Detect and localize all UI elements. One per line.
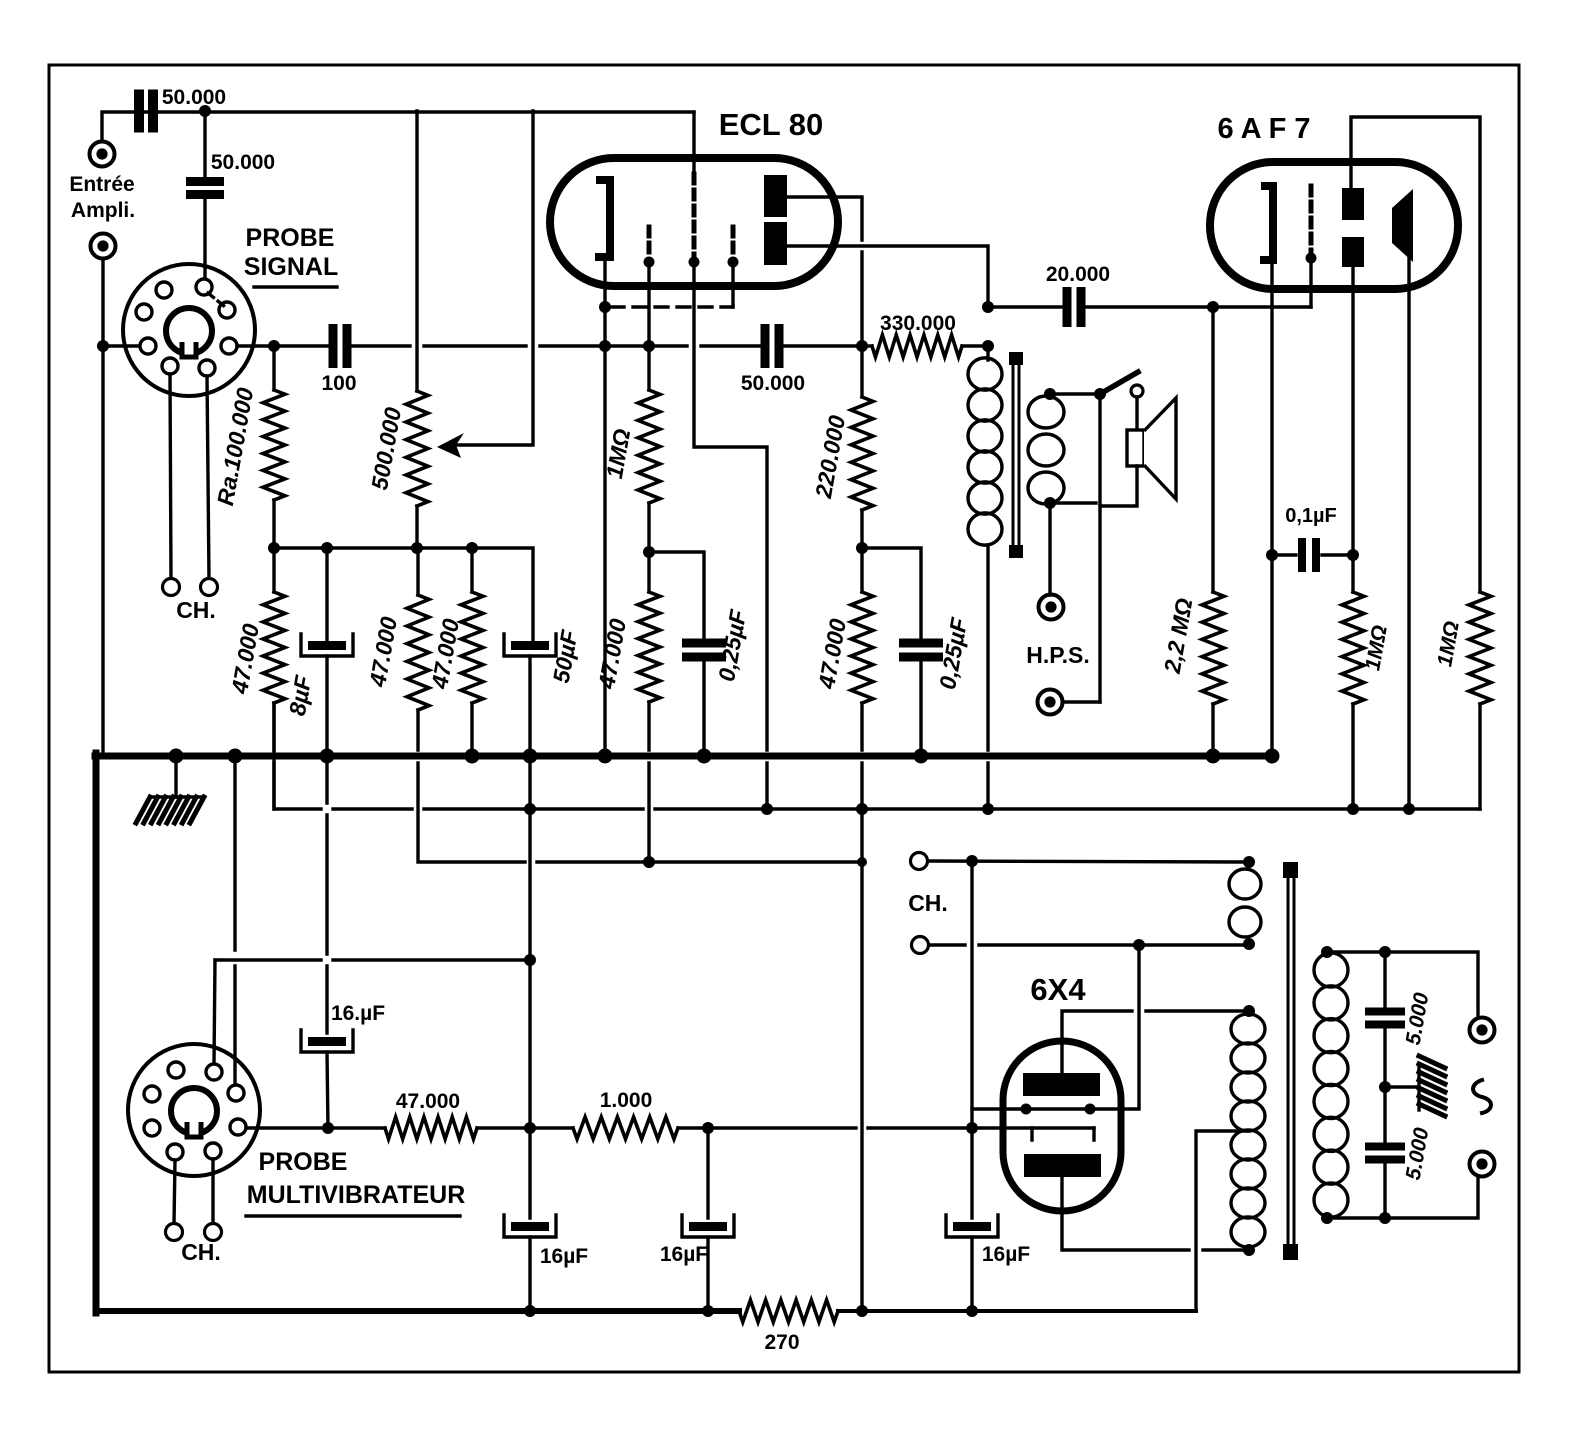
label PROBE MULTIVIBRATEUR bbox=[246, 1148, 465, 1216]
wire input jack to top rail bbox=[102, 112, 694, 141]
capacitor C4 50.000 (coupling) bbox=[741, 324, 805, 395]
label AC symbol bbox=[1473, 1080, 1491, 1113]
electrode V3 cathode bbox=[1032, 1128, 1094, 1140]
ground output symbol bbox=[1419, 1056, 1445, 1116]
label CH top bbox=[176, 597, 216, 623]
svg-text:CH.: CH. bbox=[908, 890, 948, 916]
wire V1 triode plate down bbox=[603, 257, 606, 754]
socket1 center keyway bbox=[166, 308, 212, 357]
electrode V2 plate bracket bbox=[1260, 186, 1273, 260]
svg-text:6X4: 6X4 bbox=[1030, 972, 1086, 1007]
resistor R10 2.2M ohm bbox=[1159, 307, 1224, 758]
electrode V1 pentode plate bbox=[764, 175, 787, 217]
svg-text:16µF: 16µF bbox=[982, 1243, 1030, 1266]
svg-text:H.P.S.: H.P.S. bbox=[1026, 642, 1090, 668]
node C7 top junction bbox=[321, 542, 333, 554]
wire switch common down to HPS bbox=[1098, 394, 1101, 702]
electrode V2 anode bar upper bbox=[1342, 188, 1364, 220]
capacitor C11 16uF bbox=[301, 756, 385, 1129]
node R8 bottom junction bbox=[856, 542, 868, 554]
wire to socket left pin bbox=[103, 344, 141, 347]
node R4 top junction bbox=[466, 542, 478, 554]
node 330k right junction bbox=[982, 340, 994, 352]
node pot-bottom junction bbox=[411, 542, 423, 554]
wire to output ground bbox=[1385, 1085, 1419, 1088]
pin socket2 p2 bbox=[206, 1064, 222, 1080]
wire mid link y862 bbox=[418, 710, 862, 862]
electrode V1 triode plate bracket bbox=[595, 180, 610, 257]
node V1 plate to signal wire bbox=[599, 340, 611, 352]
node heavy rail junction x605 bbox=[598, 749, 613, 764]
node heavy rail junction x530 bbox=[523, 749, 538, 764]
speaker LS driver bbox=[1127, 430, 1144, 466]
node C5 line to 2.2M bbox=[1207, 301, 1219, 313]
svg-text:50.000: 50.000 bbox=[741, 372, 805, 395]
capacitor C5 20.000 bbox=[1046, 263, 1110, 327]
terminal CH left bbox=[163, 579, 180, 596]
node bottom rail junction x862 bbox=[856, 1305, 868, 1317]
capacitor C12 16uF bbox=[504, 1215, 588, 1311]
wire dashed socket1 link bbox=[208, 293, 224, 306]
node T1 secondary top bbox=[1044, 388, 1056, 400]
wire V2 target down bbox=[1407, 258, 1410, 809]
pin socket2 p1 bbox=[168, 1062, 184, 1078]
node heavy rail junction x1213 bbox=[1206, 749, 1221, 764]
transformer T2 secondary winding bbox=[1314, 953, 1348, 1217]
wire multivibrator output line bbox=[246, 1126, 1094, 1129]
wire V1 grid2 elbow down-right bbox=[694, 262, 767, 809]
wire pot feed from top rail bbox=[415, 111, 418, 391]
electrode V3 plate 1 bbox=[1023, 1073, 1100, 1096]
wire filament right link bbox=[1090, 945, 1139, 1109]
wire main signal line (socket to 330k node) bbox=[237, 344, 862, 347]
wire V2 upper bar over the top bbox=[1351, 117, 1480, 592]
node R5 bottom junction bbox=[643, 546, 655, 558]
electrode V1 grid2 dashed (from top rail) bbox=[689, 112, 700, 268]
switch SW contact bbox=[1131, 385, 1143, 397]
capacitor C1 50.000 (input coupling) bbox=[134, 86, 226, 133]
capacitor C16 5.000 bbox=[1365, 1126, 1434, 1218]
svg-text:Entrée: Entrée bbox=[69, 173, 134, 196]
capacitor C7 8uF bbox=[284, 548, 353, 756]
node C11 bottom junction bbox=[322, 1122, 334, 1134]
node V1 plate to dashed link bbox=[599, 301, 611, 313]
resistor R11 1M ohm bbox=[1342, 592, 1392, 809]
jack J3 H.P.S. top bbox=[1039, 595, 1064, 620]
resistor R4 47.000 bbox=[426, 548, 483, 756]
wire heavy chassis rail bbox=[95, 753, 1275, 760]
ground chassis symbol bbox=[136, 756, 204, 823]
wire heavy left bus bbox=[93, 753, 100, 1313]
resistor R16 47.000 (pot column) bbox=[364, 548, 429, 710]
transformer T2 core bbox=[1283, 862, 1298, 1260]
socket2 center keyway bbox=[171, 1088, 217, 1137]
node T2 secondary top bbox=[1321, 946, 1333, 958]
wire x972 column bbox=[970, 861, 973, 1218]
svg-text:100: 100 bbox=[321, 372, 356, 395]
resistor R6 47.000 bbox=[593, 552, 660, 862]
wire jack J2 down the left side bbox=[101, 259, 104, 754]
wire switch to speaker bbox=[1135, 397, 1138, 430]
resistor R14 1.000 bbox=[573, 1089, 678, 1139]
wire T1 sec top to switch bbox=[1050, 392, 1100, 395]
electrode V1 grid3 dashed bbox=[728, 227, 739, 268]
wire filament left link bbox=[972, 1107, 1026, 1110]
wire screen to 20.000 and 6AF7 grid bbox=[988, 305, 1311, 308]
wire V2 plate down bbox=[1270, 260, 1273, 758]
label CH bottom bbox=[181, 1239, 221, 1265]
svg-text:CH.: CH. bbox=[176, 597, 216, 623]
wire pot bottom bbox=[415, 506, 418, 548]
wire long vertical x862 down bbox=[860, 809, 863, 1311]
switch SW pivot bbox=[1094, 388, 1106, 400]
switch SW lever bbox=[1100, 372, 1138, 394]
terminal CH2 left bbox=[166, 1224, 183, 1241]
wire bias bus y548 bbox=[274, 548, 533, 641]
wire V1 grid3 to plate (dashed link) bbox=[611, 262, 733, 307]
node heavy rail junction x472 bbox=[465, 749, 480, 764]
wire V1 screen out bbox=[787, 246, 988, 307]
pin socket1 p5 bbox=[219, 302, 235, 318]
capacitor C15 5.000 bbox=[1365, 952, 1434, 1143]
electrode V1 pentode cathode bbox=[764, 222, 787, 265]
capacitor C9 0.25uF bbox=[649, 552, 751, 756]
jack J1 Entree Ampli top bbox=[90, 142, 115, 167]
wire T2 center tap to ground rail bbox=[1196, 1131, 1249, 1311]
node bottom rail junction x972 bbox=[966, 1305, 978, 1317]
svg-text:50.000: 50.000 bbox=[162, 86, 226, 109]
wire socket2 heater right down bbox=[211, 1159, 214, 1224]
pin socket1 p2 bbox=[156, 282, 172, 298]
resistor R5 1M ohm bbox=[601, 346, 660, 552]
label PROBE SIGNAL bbox=[244, 224, 338, 287]
resistor R13 47.000 bbox=[385, 1090, 477, 1139]
label 6AF7 bbox=[1218, 113, 1311, 145]
svg-text:CH.: CH. bbox=[181, 1239, 221, 1265]
node T2 HV bottom bbox=[1243, 1244, 1255, 1256]
terminal CH4 mid bbox=[912, 937, 929, 954]
svg-text:16µF: 16µF bbox=[540, 1245, 588, 1268]
transformer T1 secondary winding bbox=[1028, 396, 1064, 504]
capacitor C2 50.000 (to probe socket) bbox=[186, 151, 275, 199]
terminal CH3 mid bbox=[911, 853, 928, 870]
node T2 heater top bbox=[1243, 856, 1255, 868]
wire socket1 heater pin right down bbox=[207, 376, 209, 579]
node heavy rail junction x1272 bbox=[1265, 749, 1280, 764]
node R1 bottom junction bbox=[268, 542, 280, 554]
node 330k left junction bbox=[856, 340, 868, 352]
node rail2 junction x1353 bbox=[1347, 803, 1359, 815]
node C14 top junction bbox=[966, 1122, 978, 1134]
resistor R15 270 bbox=[739, 1300, 838, 1354]
node heavy rail junction x921 bbox=[914, 749, 929, 764]
pin socket2 p6 bbox=[230, 1119, 246, 1135]
wire T1 sec bottom to HPS jack bbox=[1048, 503, 1051, 595]
wire T1 sec bottom stub bbox=[1050, 501, 1096, 504]
resistor R7 330.000 bbox=[862, 312, 988, 357]
resistor R3 47.000 bbox=[226, 548, 285, 809]
tube V3 6X4 envelope bbox=[1003, 1041, 1121, 1211]
electrode V2 anode bar lower bbox=[1342, 237, 1364, 267]
node rail2 junction x767 bbox=[761, 803, 773, 815]
node C16 bottom junction bbox=[1379, 1212, 1391, 1224]
node heavy rail junction x704 bbox=[697, 749, 712, 764]
wire T2 sec bottom line bbox=[1327, 1178, 1478, 1218]
node T2 secondary bottom bbox=[1321, 1212, 1333, 1224]
wire x530 long vertical bbox=[528, 756, 531, 1218]
node C6 right junction bbox=[1347, 549, 1359, 561]
resistor R2 500.000 potentiometer bbox=[366, 391, 428, 506]
wire CH3 line bbox=[928, 861, 1243, 862]
svg-text:20.000: 20.000 bbox=[1046, 263, 1110, 286]
svg-text:330.000: 330.000 bbox=[880, 312, 956, 335]
node T2 HV top bbox=[1243, 1005, 1255, 1017]
capacitor C10 0.25uF bbox=[862, 548, 972, 756]
node rail2 junction x1409 bbox=[1403, 803, 1415, 815]
capacitor C14 16uF bbox=[946, 1215, 1030, 1311]
tube socket PROBE MULTIVIBRATEUR outline bbox=[128, 1044, 260, 1176]
jack J2 Entree Ampli bottom bbox=[91, 234, 116, 259]
wire speaker bottom bbox=[1100, 466, 1137, 506]
resistor R9 47.000 bbox=[813, 548, 873, 810]
wire y962 link bbox=[215, 958, 530, 961]
tube V2 6AF7 envelope bbox=[1210, 162, 1458, 289]
jack J6 output bottom bbox=[1470, 1152, 1495, 1177]
node rail2 junction x862 bbox=[856, 803, 868, 815]
label H.P.S. bbox=[1026, 642, 1090, 668]
node CH4 junction bbox=[1133, 939, 1145, 951]
svg-text:16µF: 16µF bbox=[660, 1243, 708, 1266]
wire V1 grid1 down bbox=[647, 262, 650, 346]
wire V1 pentode plate out bbox=[787, 197, 862, 346]
pin socket1 p7 bbox=[162, 358, 178, 374]
wire HPS bottom jack link bbox=[1063, 700, 1100, 703]
node rail2 junction x988 bbox=[982, 803, 994, 815]
transformer T1 core bbox=[1009, 352, 1023, 558]
node T1 secondary bottom bbox=[1044, 497, 1056, 509]
capacitor C3 100 bbox=[321, 324, 356, 395]
wire V2 lower bar down bbox=[1351, 267, 1354, 592]
node junction left wire to socket bbox=[97, 340, 109, 352]
wire socket2 feed from rail bbox=[233, 756, 236, 1086]
wire T2 sec top line bbox=[1327, 952, 1478, 1016]
svg-text:ECL 80: ECL 80 bbox=[719, 107, 824, 142]
svg-text:SIGNAL: SIGNAL bbox=[244, 253, 338, 281]
jack J4 H.P.S. bottom bbox=[1038, 690, 1063, 715]
resistor R12 1M ohm bbox=[1433, 592, 1491, 809]
electrode V1 grid1 dashed bbox=[644, 227, 655, 268]
pin socket2 p3 bbox=[144, 1086, 160, 1102]
pin socket1 p1 bbox=[196, 279, 212, 295]
wire pot wiper from top rail bbox=[447, 111, 533, 445]
svg-text:270: 270 bbox=[764, 1331, 799, 1354]
wire y962 to socket2 pin bbox=[214, 960, 215, 1064]
svg-text:PROBE: PROBE bbox=[246, 224, 335, 252]
resistor R1 Ra.100.000 bbox=[212, 346, 285, 548]
capacitor C6 0.1uF bbox=[1272, 505, 1353, 572]
pin socket2 p5 bbox=[144, 1120, 160, 1136]
wire V2 grid elbow to C5 line bbox=[1309, 258, 1312, 307]
wire V3 plate2 to HV bottom bbox=[1062, 1177, 1243, 1250]
label Entree Ampli bbox=[69, 173, 135, 222]
pin socket1 p3 bbox=[136, 304, 152, 320]
resistor R8 220.000 bbox=[810, 346, 873, 548]
speaker LS horn bbox=[1144, 398, 1176, 499]
wire V3 plate1 to HV top bbox=[1062, 1011, 1243, 1073]
pin socket1 p4 bbox=[140, 338, 156, 354]
label 6X4 bbox=[1030, 972, 1086, 1007]
svg-text:6 A F 7: 6 A F 7 bbox=[1218, 113, 1311, 145]
node bottom rail junction x708 bbox=[702, 1305, 714, 1317]
node screen junction bbox=[982, 301, 994, 313]
node heavy rail junction x235 bbox=[228, 749, 243, 764]
node output ground junction bbox=[1379, 1081, 1391, 1093]
svg-text:PROBE: PROBE bbox=[259, 1148, 348, 1176]
node C15 top junction bbox=[1379, 946, 1391, 958]
transformer T2 heater winding bbox=[1229, 869, 1261, 937]
pin socket2 p4 bbox=[228, 1085, 244, 1101]
terminal CH2 right bbox=[205, 1224, 222, 1241]
node V2 plate C6 junction bbox=[1266, 549, 1278, 561]
wire bottom chassis rail bbox=[96, 1308, 1196, 1314]
node A junction top rail bbox=[199, 105, 211, 117]
pin socket2 p7 bbox=[167, 1144, 183, 1160]
node mid link right junction bbox=[857, 857, 867, 867]
node heavy rail junction x327 bbox=[320, 749, 335, 764]
wire rail2 B-line bbox=[274, 703, 1480, 809]
wire socket2 heater left down bbox=[174, 1160, 175, 1224]
arrow pot wiper bbox=[437, 433, 464, 458]
wire socket1 heater pin left down bbox=[170, 374, 171, 579]
electrode V2 target halfmoon bbox=[1392, 189, 1413, 262]
node V1 grid1 junction bbox=[643, 340, 655, 352]
node heavy rail junction x176 bbox=[169, 749, 184, 764]
capacitor C13 16uF bbox=[660, 1128, 734, 1311]
electrode V3 filament bbox=[1021, 1104, 1096, 1115]
svg-text:Ampli.: Ampli. bbox=[71, 199, 135, 222]
node y962 junction bbox=[524, 954, 536, 966]
node CH3 junction bbox=[966, 855, 978, 867]
tube V1 ECL 80 envelope bbox=[550, 158, 838, 286]
pin socket1 p6 bbox=[221, 338, 237, 354]
label CH mid bbox=[908, 890, 948, 916]
node T2 heater bottom bbox=[1243, 938, 1255, 950]
wire C2 column upper bbox=[203, 111, 206, 177]
transformer T1 primary winding bbox=[968, 346, 1002, 809]
electrode V2 grid dashed bbox=[1306, 186, 1317, 264]
node mid link junction bbox=[643, 856, 655, 868]
node bottom rail junction x530 bbox=[524, 1305, 536, 1317]
svg-text:16.µF: 16.µF bbox=[331, 1002, 385, 1025]
svg-text:50.000: 50.000 bbox=[211, 151, 275, 174]
electrode V3 plate 2 bbox=[1024, 1154, 1101, 1177]
svg-text:0,1µF: 0,1µF bbox=[1285, 505, 1337, 527]
wire CH4 line bbox=[929, 943, 1243, 946]
jack J5 output top bbox=[1470, 1018, 1495, 1043]
svg-text:47.000: 47.000 bbox=[396, 1090, 460, 1113]
transformer T2 HV winding bbox=[1231, 1014, 1265, 1247]
terminal CH right bbox=[201, 579, 218, 596]
tube socket PROBE SIGNAL outline bbox=[123, 264, 255, 396]
node R13 R14 junction bbox=[524, 1122, 536, 1134]
node rail2 junction x530 bbox=[524, 803, 536, 815]
node Ra junction bbox=[268, 340, 280, 352]
svg-text:1.000: 1.000 bbox=[600, 1089, 653, 1112]
svg-text:MULTIVIBRATEUR: MULTIVIBRATEUR bbox=[247, 1181, 466, 1209]
label ECL 80 bbox=[719, 107, 824, 142]
pin socket2 p8 bbox=[205, 1143, 221, 1159]
wire C2 column lower to socket pin bbox=[203, 197, 206, 280]
pin socket1 p8 bbox=[199, 360, 215, 376]
capacitor C8 50uF bbox=[504, 627, 583, 756]
node R14 out junction bbox=[702, 1122, 714, 1134]
